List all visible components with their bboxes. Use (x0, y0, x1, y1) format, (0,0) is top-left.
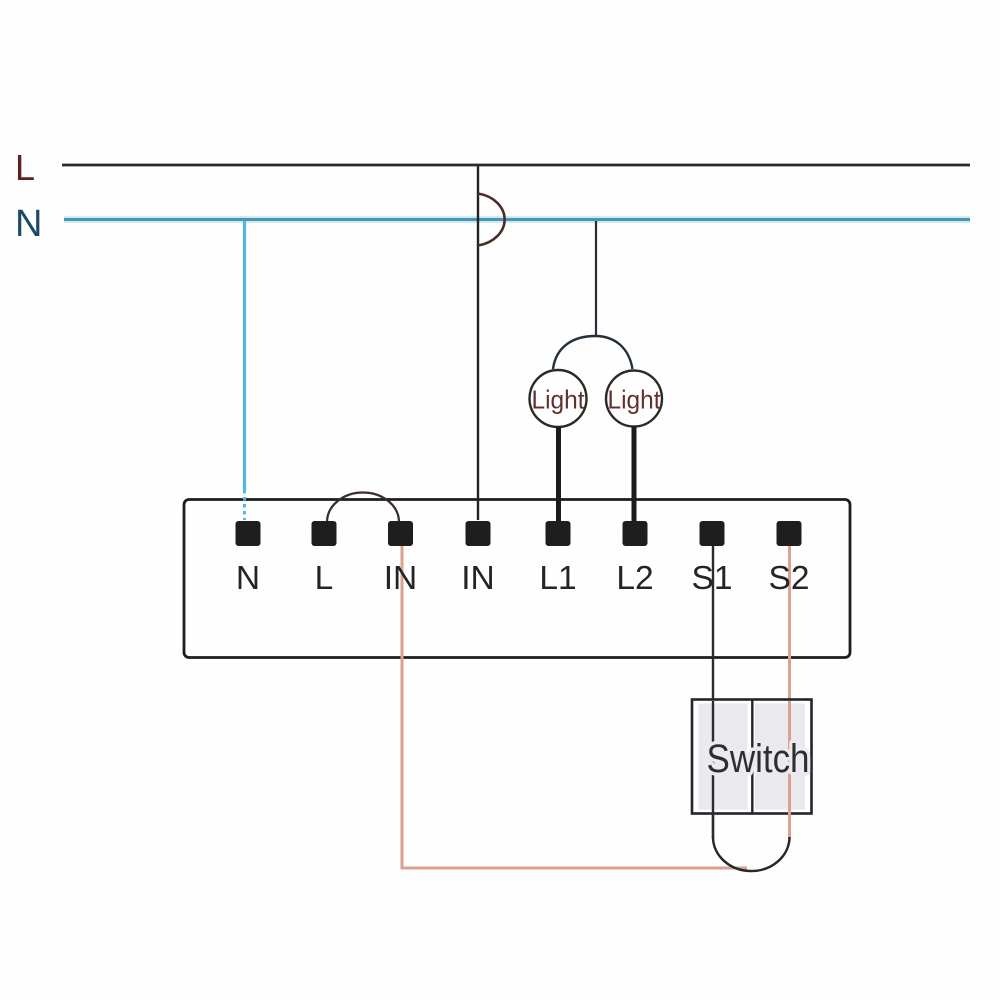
svg-text:S2: S2 (769, 560, 810, 597)
svg-text:Switch: Switch (707, 737, 810, 781)
svg-text:N: N (15, 203, 42, 245)
svg-text:IN: IN (461, 560, 495, 597)
svg-text:L2: L2 (616, 560, 653, 597)
svg-text:N: N (236, 560, 260, 597)
svg-text:L1: L1 (539, 560, 576, 597)
svg-text:IN: IN (384, 560, 418, 597)
svg-text:L: L (15, 147, 35, 188)
svg-text:S1: S1 (692, 560, 733, 597)
svg-text:Light: Light (532, 385, 586, 415)
svg-text:Light: Light (608, 385, 662, 415)
svg-text:L: L (315, 560, 334, 597)
